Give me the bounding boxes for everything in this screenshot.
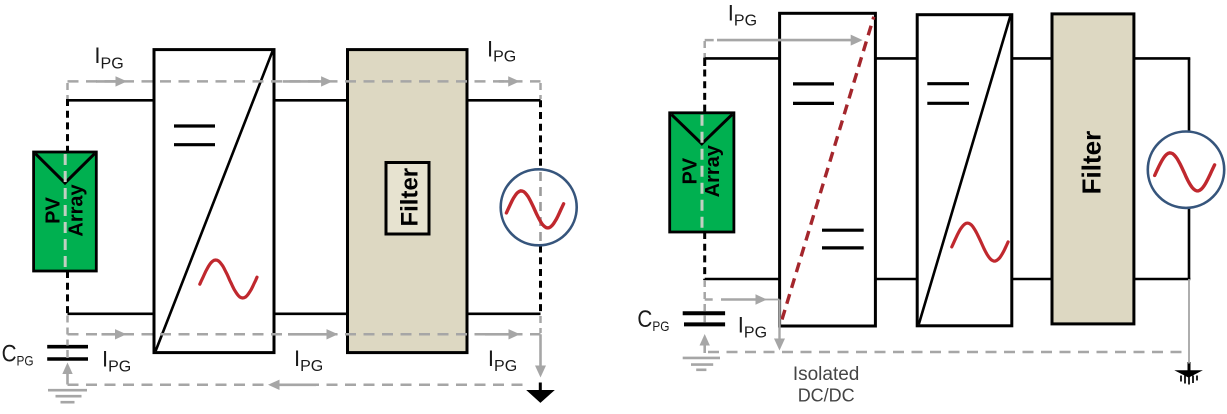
gray up arrow into CPG (left diagram) <box>62 363 72 385</box>
DC/AC inverter block U3 (right diagram) <box>917 15 1012 326</box>
wire: top DC bus (left diagram, black) <box>68 99 541 102</box>
ground symbol (black triangle with brush, right diagram) <box>1174 362 1203 385</box>
svg-text:IPG: IPG <box>487 36 516 65</box>
svg-text:Filter: Filter <box>397 168 424 227</box>
label IPG lower (right diagram) <box>738 313 767 342</box>
wire: bottom bus (right diagram, black) <box>705 278 1191 281</box>
svg-text:IPG: IPG <box>94 43 123 72</box>
capacitor CPG (right diagram) <box>683 313 725 324</box>
AC grid source (right diagram) <box>1148 132 1224 208</box>
Filter block (left diagram) <box>348 50 468 353</box>
DC symbol in U3 <box>927 84 969 104</box>
wire: top bus (right diagram, black) <box>705 57 1191 60</box>
svg-text:CPG: CPG <box>637 306 669 334</box>
earth ground under CPG (right diagram) <box>683 358 720 370</box>
label CPG (left diagram) <box>2 341 34 369</box>
DC symbol top in U2 <box>793 84 834 104</box>
wire: gray drop from AC source to ground (right diagram) <box>1188 279 1190 364</box>
capacitor CPG (left diagram) <box>47 347 88 359</box>
PV array (left diagram) <box>34 152 97 271</box>
svg-text:DC/DC: DC/DC <box>798 386 855 406</box>
wire: left bus dashed black through PV string (left diagram) <box>66 99 69 315</box>
label IPG top-left (left diagram) <box>94 43 123 72</box>
wire: right bus to AC source (right diagram, black) <box>1188 58 1191 279</box>
label IPG bottom-right (left diagram) <box>488 346 517 375</box>
wire: bottom-most gray dashed return (left diagram) <box>68 380 529 390</box>
earth ground under CPG (left diagram) <box>48 390 87 402</box>
svg-text:Filter: Filter <box>1077 131 1107 195</box>
wire: gray dashed bus into CPG (left diagram) <box>66 316 69 359</box>
PV array (right diagram) <box>670 113 734 232</box>
svg-text:CPG: CPG <box>2 341 34 369</box>
isolated DC/DC converter block U2 (right diagram) <box>780 13 876 326</box>
label IPG top (right diagram) <box>728 0 757 29</box>
AC sine symbol in U3 <box>952 223 1008 261</box>
DC/AC inverter block U1 (left diagram) <box>154 50 274 353</box>
label CPG (right diagram) <box>637 306 669 334</box>
wire: top gray leakage arrow (right diagram) <box>705 35 863 57</box>
wire: gray drop to ground at right (left diagram) <box>535 316 546 378</box>
Filter block (right diagram) <box>1052 14 1134 324</box>
wire: right bus dashed black (left diagram) <box>539 100 542 313</box>
wire: left bus dashed black (right diagram) <box>703 58 706 281</box>
label IPG top-right (left diagram) <box>487 36 516 65</box>
svg-text:IPG: IPG <box>728 0 757 29</box>
wire: gray leakage path near CPG (right diagram) <box>705 280 785 351</box>
wire: lower gray dashed leakage path (left diagram) <box>68 329 541 339</box>
AC grid source (left diagram) <box>501 169 577 245</box>
DC symbol bottom in U2 <box>822 230 864 248</box>
svg-text:IPG: IPG <box>102 347 131 376</box>
svg-text:Isolated: Isolated <box>793 364 860 385</box>
wire: bottom return bus (left diagram, black) <box>68 312 541 315</box>
label IPG bottom-left (left diagram) <box>102 347 131 376</box>
svg-text:IPG: IPG <box>738 313 767 342</box>
Filter inner label box (left diagram) <box>386 163 429 235</box>
ground symbol (black triangle, left diagram) <box>526 383 555 403</box>
label IPG bottom-middle (left diagram) <box>294 346 323 375</box>
label Isolated DC/DC (right diagram) <box>793 364 860 405</box>
DC symbol in U1 <box>174 126 215 145</box>
gray up arrow into CPG (right diagram) <box>700 334 710 353</box>
AC sine symbol in U1 <box>200 260 257 298</box>
svg-text:IPG: IPG <box>294 346 323 375</box>
wire: gray dash between CPG plates (right diagram) <box>703 316 706 323</box>
svg-text:IPG: IPG <box>488 346 517 375</box>
wire: bottom gray dashed return (right diagram) <box>708 351 1189 354</box>
wire: top leakage current path gray dashed (left diagram) <box>68 76 541 99</box>
